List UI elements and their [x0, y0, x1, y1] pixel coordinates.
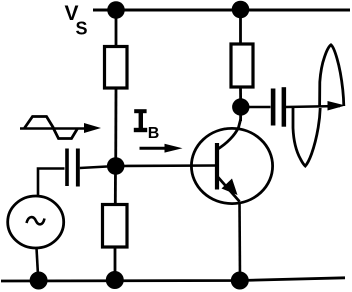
label IB — [134, 109, 160, 142]
arrow IB — [140, 144, 183, 153]
label VS — [65, 2, 88, 39]
resistor R3 (collector resistor) — [231, 44, 253, 87]
svg-text:B: B — [148, 125, 160, 142]
node: bottom-middle junction — [106, 271, 124, 289]
svg-text:S: S — [76, 19, 88, 39]
node: top-right junction — [232, 1, 250, 19]
wire: AC source to bottom rail — [37, 248, 39, 281]
wire: R2 to bottom rail — [114, 247, 117, 280]
input waveform (small sine) — [20, 117, 86, 139]
wire: input cap to base node — [80, 167, 107, 169]
wire: bottom ground rail — [1, 278, 345, 281]
wire: top dot to R3 — [239, 10, 242, 45]
wire: collector node to output cap — [249, 106, 271, 109]
node: collector junction — [232, 98, 249, 115]
AC source V1 — [8, 196, 64, 248]
resistor R1 (upper bias resistor) — [105, 47, 128, 89]
transistor Q1 (NPN) — [191, 120, 272, 204]
resistor R2 (lower bias resistor) — [103, 205, 128, 248]
node: top-left junction — [107, 1, 125, 19]
wire: output axis — [286, 106, 340, 107]
node: bottom-right junction — [231, 272, 249, 290]
wire: base node to transistor base — [124, 164, 216, 167]
node: base junction — [107, 157, 125, 175]
wire: collector node down to transistor — [239, 107, 242, 121]
wire: base node to R2 — [114, 166, 117, 205]
wire: AC source to input cap — [38, 169, 65, 197]
output arrow head — [328, 101, 346, 111]
wire: R1 to base node — [114, 88, 117, 166]
node: bottom-left junction — [30, 272, 48, 290]
wire: top dot to R1 — [115, 10, 118, 47]
output waveform (large sine) — [293, 45, 344, 166]
capacitor C1 (input coupling) — [65, 149, 80, 187]
capacitor C2 (output coupling) — [271, 87, 286, 127]
wire: emitter to bottom rail — [238, 202, 241, 281]
input arrow head — [84, 123, 101, 133]
wire: R3 to collector node — [239, 87, 242, 107]
wire: top supply rail — [93, 9, 350, 12]
